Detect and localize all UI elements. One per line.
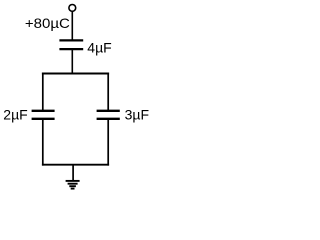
ground bar 4 (71, 188, 75, 190)
wire C3 bottom to bottom bus (107, 119, 109, 166)
capacitor C2 2µF bottom plate (32, 118, 55, 120)
capacitor C3 3µF top plate (97, 110, 120, 112)
wire node B to ground (72, 165, 74, 180)
wire C1 bottom plate to node A (71, 49, 73, 73)
ground bar 2 (68, 183, 78, 185)
svg-text:4µF: 4µF (87, 40, 111, 56)
capacitor C1 4µF top plate (59, 39, 83, 41)
wire left branch down to C2 (42, 73, 44, 111)
ground bar 3 (69, 185, 76, 187)
node A top bus wire (42, 73, 109, 75)
capacitor C3 3µF bottom plate (97, 118, 120, 120)
terminal (open circle) (69, 5, 76, 12)
wire right branch down to C3 (107, 73, 109, 111)
svg-text:3µF: 3µF (125, 107, 149, 123)
capacitor C2 2µF top plate (32, 110, 55, 112)
svg-text:2µF: 2µF (3, 107, 27, 123)
wire C2 bottom to bottom bus (42, 119, 44, 166)
capacitor C1 4µF bottom plate (59, 48, 83, 50)
ground bar 1 (66, 180, 80, 182)
wire terminal to C1 top plate (71, 11, 73, 40)
svg-text:+80µC: +80µC (25, 15, 70, 31)
bottom bus wire (42, 164, 109, 166)
